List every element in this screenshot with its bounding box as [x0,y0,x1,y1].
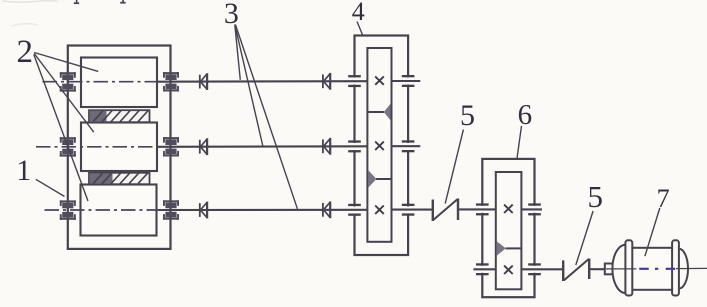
gearbox6 wall bearing s1 right [528,203,541,215]
shaft 3 axis dash-dot [45,209,159,211]
mesh A cone [384,104,391,121]
shaft 3 to coupling [392,209,433,211]
shaft 1 axis dash-dot [43,81,159,83]
mesh B line [376,178,391,180]
gearbox 6 outer casing [482,159,534,297]
leader line label1 [36,179,65,196]
roller R-top body [81,58,157,108]
coupling 5b link [564,259,589,280]
shaft 2 right stub [392,145,421,147]
motor right end cap [679,249,688,289]
workpiece hatched block H2 [89,173,150,184]
spindle cone 1a [200,73,207,90]
shaft 1 right stub [392,80,421,82]
gear mark gb6 upper [504,205,513,213]
roller R-mid body [81,123,157,172]
bearing roller3 right [163,200,179,219]
motor right flange [672,240,679,295]
shaft 2 axis dash-dot [36,146,158,148]
coupling 5a right half [457,199,459,221]
gearbox6 wall bearing s1 left [476,203,489,215]
motor left flange [625,240,632,295]
motor shaft stub box [605,264,613,275]
svg-text:5: 5 [588,179,604,214]
mesh C line [506,247,521,249]
coupling 5a left half [432,200,434,222]
leader line label6 [517,126,522,158]
svg-text:7: 7 [657,184,670,213]
svg-text:5: 5 [460,99,475,132]
gearbox4 wall bearing s3 right [402,204,415,216]
mesh C cone [497,241,506,255]
gear mark shaft3 [375,206,384,214]
gearbox4 wall bearing s2 left [348,140,361,152]
leader lines label3 [235,25,298,209]
motor input shaft [589,268,605,270]
svg-text:6: 6 [518,99,533,131]
shaft 3 solid line [158,209,367,211]
motor axis tail [676,267,707,269]
wall gaps for shafts [353,78,537,273]
shaft coupling to gearbox 6 [458,208,496,210]
faint scan streak [2,1,58,2]
motor left end cap [612,245,625,293]
coupling 5b right half [588,259,590,280]
spindle cone 2a [200,138,207,155]
cropped text remnant B [120,0,125,4]
gearbox6 wall bearing s2 left [476,263,489,275]
bearing roller2 right [163,137,179,156]
leader line label4 [357,22,363,37]
bearing roller1 right [163,72,179,91]
gear mark gb6 lower [504,266,513,274]
motor axis dashes [639,268,675,270]
motor body [629,248,675,290]
spindle cone 2b [323,138,330,155]
cropped text remnant A [74,0,79,4]
leader line label7 [645,208,660,256]
gearbox 6 lower left stub [473,268,495,270]
mesh A line [368,111,384,113]
shaft 1 solid line [158,80,367,83]
gearbox4 wall bearing s3 left [348,204,361,216]
gearbox 6 inner housing [496,172,522,289]
gearbox 6 upper right stub [521,208,542,210]
spindle cone 3a [200,202,207,219]
workpiece hatched block H1 [89,110,150,122]
svg-text:1: 1 [16,154,31,187]
stand frame [68,46,171,249]
spindle cone 3b [323,201,330,218]
coupling 5b left half [562,260,564,281]
shaft 2 solid line [158,145,367,148]
gearbox6 wall bearing s2 right [528,263,541,275]
leader line label5a [445,130,463,204]
svg-text:3: 3 [224,0,239,30]
gearbox 6 output shaft [521,268,563,270]
motor axis through left cap [606,268,637,270]
gear mark shaft1 [375,76,384,84]
bearing roller3 left [60,200,76,219]
gearbox 4 outer casing [355,36,409,256]
mesh B cone [368,170,376,187]
leader line label5b [576,211,593,265]
gearbox4 wall bearing s1 left [348,75,361,87]
svg-text:2: 2 [17,34,34,70]
coupling 5a link [434,199,458,220]
gearbox 4 inner housing [367,48,391,242]
gearbox4 wall bearing s1 right [402,75,415,87]
spindle cone 1b [323,73,330,90]
leader lines label2 [34,53,98,202]
svg-text:4: 4 [352,0,365,26]
gear mark shaft2 [375,142,384,150]
bearing roller2 left [60,137,76,156]
bearing roller1 left [60,72,76,91]
roller R-bot body [81,185,157,236]
gearbox4 wall bearing s2 right [402,140,415,152]
